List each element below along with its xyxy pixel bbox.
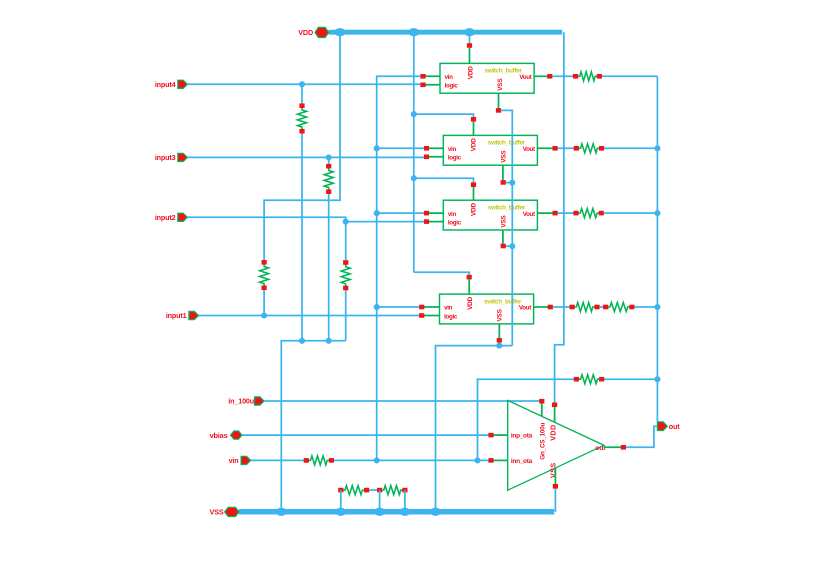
wire bottom middle stub [379,490,381,512]
pin square buffer4 VDD [467,275,472,280]
pin square opamp VDD [552,403,557,408]
wire green stub buffer4 VSS [498,324,500,338]
pin square opamp VSS [553,484,558,489]
pin square opamp Gn_CS_100u [539,399,544,404]
svg-text:input1: input1 [166,311,187,320]
resistor R row3 [573,209,604,218]
wire green stub buffer2 VDD [473,122,475,136]
wire VSS bus horizontal [436,346,513,512]
pin square buffer U4 Vout [548,305,553,310]
svg-text:switch_buffer: switch_buffer [488,140,526,147]
wire green stub buffer3 VSS [502,230,504,244]
junction vin net buffer4 [374,304,380,310]
pin input2 [155,213,188,222]
wire input4 net [187,83,420,85]
junction VSS rail at x435 [430,508,441,516]
junction vin net at vin line [374,457,380,463]
svg-text:Vout: Vout [519,305,531,312]
op-amp U5 body [508,400,607,490]
pin square buffer3 VSS [501,244,506,249]
pin square opamp inn_ota [488,458,493,463]
pin VDD [298,27,328,37]
pin square buffer U1 Vout [547,74,552,79]
pin square buffer2 VDD [471,117,476,122]
pin square buffer U2 logic [424,155,429,160]
resistor R row4 second [603,303,634,312]
junction out bus row2 [654,145,660,151]
svg-text:Vout: Vout [523,211,535,218]
svg-text:vin: vin [444,305,453,312]
svg-text:switch_buffer: switch_buffer [484,298,522,305]
svg-text:switch_buffer: switch_buffer [485,68,523,75]
wire green stub buffer U3 Vout [537,212,555,214]
op-amp buffer U1 body [440,63,534,93]
resistor R input1 ladder [260,260,269,290]
svg-text:in_100u: in_100u [228,397,254,406]
junction VDD rail at x469 [464,28,475,36]
pin square opamp inp_ota [488,433,493,438]
resistor R input3 chain [324,164,333,194]
junction VDD rail at x414 [408,28,419,36]
junction VDD drop to buffer2 [411,111,417,117]
op-amp buffer U2 body [443,135,537,165]
junction VSS rail at x340 [335,508,346,516]
junction chain tie x329 [326,338,332,344]
wire vin vertical net [377,76,421,460]
resistor R row2 [574,144,605,153]
pin out [657,422,680,431]
pin input3 [155,153,188,162]
wire out bus vertical [656,76,658,422]
wire VDD drop to opamp [555,32,564,402]
svg-text:logic: logic [448,219,462,226]
svg-text:VSS: VSS [500,214,507,227]
junction VDD drop to buffer3 [411,175,417,181]
wire vbias net [242,434,489,436]
pin vin [229,456,251,465]
op-amp buffer U3 body [443,200,537,230]
svg-text:logic: logic [445,83,459,90]
svg-text:Vout: Vout [519,74,531,81]
svg-text:VDD: VDD [471,203,478,216]
wire input2 net [187,217,424,221]
junction VSS rail at x404 [400,508,411,516]
svg-text:input2: input2 [155,213,176,222]
wire green stub opamp out [604,446,621,448]
wire buffer1 Vout to R [552,75,573,77]
wire green stub buffer U4 vin [422,306,440,308]
wire input4 chain upper [301,84,303,103]
svg-text:VSS: VSS [210,508,224,517]
wire buffer1 VSS to bus [501,110,513,345]
VDD rail wire [329,30,563,35]
resistor R input2 chain [341,260,350,290]
pin square buffer U3 Vout [553,211,558,216]
wire bottom resistors link [369,489,377,491]
wire row3 to out bus [604,212,658,214]
wire vin net left [251,459,304,461]
wire input3 net [187,156,424,158]
svg-text:VDD: VDD [549,424,558,440]
wire bottom left stub [340,490,342,512]
wire VDD feed buffer4 [414,272,469,275]
wire chain tie horizontal [281,341,345,512]
svg-text:vin: vin [448,211,457,218]
junction VSS rail at x379 [374,508,385,516]
svg-text:vin: vin [448,146,457,153]
junction out bus feedback [654,376,660,382]
pin square buffer U3 logic [424,219,429,224]
pin square buffer U4 vin [419,305,424,310]
wire green stub buffer1 VSS [498,93,500,108]
wire green stub buffer2 VSS [502,165,504,180]
resistor R input4 chain [298,103,307,133]
wire buffer4 Vout to R [553,306,570,308]
wire green stub buffer3 VDD [473,187,475,200]
wire green stub buffer1 VDD [469,48,471,64]
svg-text:vin: vin [229,456,239,465]
svg-text:VSS: VSS [497,308,504,321]
resistor R feedback [574,375,605,384]
svg-text:switch_buffer: switch_buffer [488,204,526,211]
wire green stub buffer4 VDD [468,279,470,294]
wire row2 to out bus [604,147,658,149]
wire bottom right stub [404,490,406,512]
wire opamp out to pin [626,426,658,447]
svg-text:inn_ota: inn_ota [511,458,533,465]
pin input1 [166,311,199,320]
pin square buffer1 VSS [496,108,501,113]
wire opamp VSS to rail [554,489,556,512]
junction input4 chain [299,81,305,87]
pin square buffer U3 vin [424,211,429,216]
resistor R row1 [573,72,602,81]
wire row4 link [599,306,603,308]
junction input1/resistor [261,312,267,318]
wire buffer4 vin feed [377,306,420,308]
svg-text:VDD: VDD [298,28,313,37]
wire buffer3 Vout to R [557,212,573,214]
svg-text:out: out [595,445,606,452]
wire green stub buffer U3 logic [427,221,444,223]
pin input4 [155,80,188,89]
svg-text:vin: vin [445,74,454,81]
wire green stub buffer U1 vin [423,75,440,77]
resistor R vin series [304,456,334,465]
pin square buffer4 VSS [497,338,502,343]
junction input3 chain [326,154,332,160]
pin square buffer U1 vin [420,74,425,79]
junction input2 chain [343,219,349,225]
wire green stub inn_ota [493,459,507,461]
svg-text:VDD: VDD [467,66,474,79]
svg-text:VSS: VSS [497,78,504,91]
junction out bus row3 [654,210,660,216]
wire VDD feed buffer3 [414,178,474,182]
junction VDD rail at x340 [335,28,346,36]
pin in_100u [228,397,264,406]
svg-text:Gn_CS_100u: Gn_CS_100u [539,423,546,460]
wire green stub opamp VSS [554,468,556,484]
resistor R bottom right [377,486,408,495]
pin square buffer2 VSS [501,180,506,185]
svg-text:vbias: vbias [210,431,228,440]
wire buffer3 vin feed [377,212,424,214]
junction vin net buffer2 [374,145,380,151]
junction inn node feedback [474,457,480,463]
wire buffer4 VSS link [498,343,500,346]
svg-text:VDD: VDD [467,296,474,309]
op-amp buffer U4 body [440,294,534,324]
wire green stub buffer U4 Vout [534,306,551,308]
wire green stub buffer U3 vin [427,212,444,214]
VSS rail wire [239,509,554,515]
wire vin net right [334,459,488,461]
junction chain tie x302 [299,338,305,344]
junction VSS bus buffer3 [509,243,515,249]
pin square buffer U2 vin [424,146,429,151]
svg-text:input4: input4 [155,80,176,89]
wire green stub buffer U1 Vout [534,75,550,77]
wire green stub Gn_CS_100u [541,404,543,417]
svg-text:logic: logic [448,155,462,162]
pin square buffer U4 logic [419,313,424,318]
wire buffer3 VSS link [506,245,513,247]
wire input1 net [199,315,420,317]
svg-text:inp_ota: inp_ota [511,433,533,440]
svg-text:Vout: Vout [523,146,535,153]
wire row4 to out bus [634,306,657,308]
wire green stub buffer U2 logic [427,156,444,158]
pin square opamp out [621,445,626,450]
svg-text:VSS: VSS [500,150,507,163]
wire input2 chain upper [345,222,347,261]
wire input2 chain lower [345,290,347,341]
pin square buffer3 VDD [471,182,476,187]
wire VDD feed buffer1 [469,32,471,43]
pin vbias [210,431,242,440]
wire green stub inp_ota [493,434,507,436]
svg-text:out: out [669,422,680,431]
wire feedback from inn node [478,379,575,460]
pin square buffer U2 Vout [553,146,558,151]
wire VDD drop x340 to ladder [264,32,340,260]
wire row1 to out bus [602,75,658,77]
wire input3 chain upper [328,157,330,164]
wire buffer2 vin feed [377,147,424,149]
svg-text:input3: input3 [155,153,176,162]
pin square buffer1 VDD [467,43,472,48]
wire buffer2 VSS link [506,182,513,184]
wire feedback to out bus [604,378,657,380]
junction VSS bus buffer4 [496,343,502,349]
resistor R bottom left [338,486,369,495]
pin VSS [210,507,239,516]
junction out bus row4 [654,304,660,310]
svg-text:logic: logic [444,313,458,320]
resistor R row4 first [570,303,600,312]
wire VDD drop x414 [413,32,415,272]
svg-text:VDD: VDD [471,138,478,151]
pin square buffer U1 logic [420,83,425,88]
wire buffer2 Vout to R [557,147,574,149]
wire VDD ladder below resistor to input1 [263,290,265,315]
wire green stub opamp VDD [554,407,556,422]
wire VDD feed buffer2 [414,114,474,117]
wire green stub buffer U1 logic [423,84,440,86]
wire in_100u net [264,400,539,402]
junction vin net buffer3 [374,210,380,216]
wire green stub buffer U2 Vout [537,147,555,149]
junction VSS bus buffer2 [509,180,515,186]
wire input3 chain lower [328,194,330,341]
wire input4 chain lower [301,134,303,341]
junction VSS rail at x281 [276,508,287,516]
wire green stub buffer U4 logic [422,315,440,317]
wire green stub buffer U2 vin [427,147,444,149]
